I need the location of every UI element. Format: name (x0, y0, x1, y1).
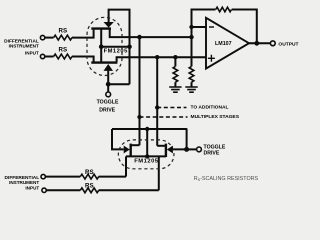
svg-text:FM1205: FM1205 (104, 49, 129, 55)
svg-text:LM107: LM107 (215, 41, 232, 47)
svg-text:TOGGLE: TOGGLE (97, 100, 119, 106)
svg-text:MULTIPLEX STAGES: MULTIPLEX STAGES (191, 114, 240, 120)
svg-text:RS: RS (58, 28, 67, 35)
svg-text:INSTRUMENT: INSTRUMENT (9, 180, 39, 185)
svg-text:RS: RS (58, 46, 67, 53)
svg-text:RS: RS (85, 183, 94, 190)
svg-text:RS-SCALING RESISTORS: RS-SCALING RESISTORS (194, 176, 259, 182)
svg-text:INPUT: INPUT (25, 51, 39, 56)
svg-text:INPUT: INPUT (25, 186, 39, 191)
svg-text:DRIVE: DRIVE (204, 150, 220, 156)
svg-text:OUTPUT: OUTPUT (278, 42, 298, 48)
svg-text:DRIVE: DRIVE (99, 107, 115, 113)
svg-text:FM1205: FM1205 (134, 159, 159, 165)
svg-text:RS: RS (85, 169, 94, 176)
svg-text:INSTRUMENT: INSTRUMENT (9, 44, 39, 49)
svg-text:TO ADDITIONAL: TO ADDITIONAL (191, 105, 229, 111)
